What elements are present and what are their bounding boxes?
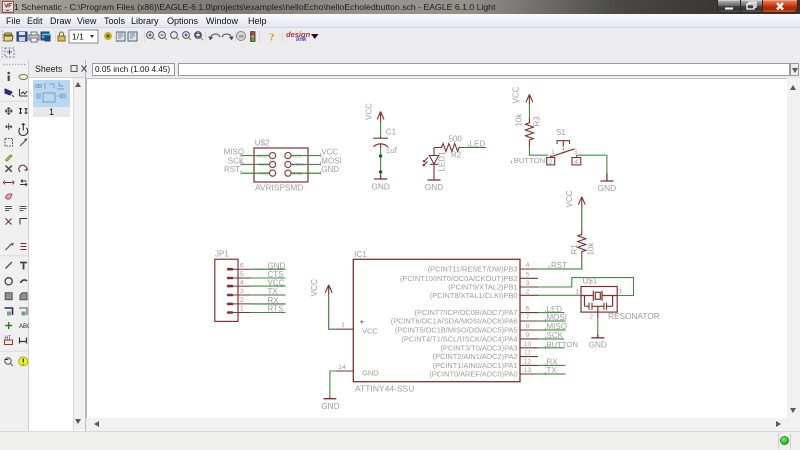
svg-text:MISO: MISO (547, 322, 567, 331)
svg-text:2: 2 (590, 314, 594, 321)
svg-text:TX: TX (547, 366, 558, 375)
wire net GND from JP1 pin 6 (251, 268, 285, 270)
wire net TX from IC1 PA0 (538, 373, 566, 375)
svg-text:SCK: SCK (547, 331, 564, 340)
switch S1 (547, 141, 581, 165)
wire net RST left of U$2 (241, 172, 270, 174)
resonator U$1 (581, 287, 617, 313)
wire net MOSI right of U$2 (291, 163, 320, 165)
svg-text:R1: R1 (570, 244, 579, 255)
wire net TX from JP1 pin 3 (251, 294, 285, 296)
svg-text:GND: GND (292, 171, 303, 177)
svg-text:(PCINT6/OC1A/SDA/MOSI/ADC6)PA6: (PCINT6/OC1A/SDA/MOSI/ADC6)PA6 (391, 317, 518, 326)
svg-text:4: 4 (574, 159, 578, 166)
svg-text:C1: C1 (386, 128, 397, 137)
resistor R1 (578, 230, 586, 259)
svg-text:RTS: RTS (268, 305, 284, 314)
svg-text:VCC: VCC (362, 327, 378, 336)
lock (58, 36, 65, 41)
add (flower) (104, 32, 112, 40)
connector JP1 (215, 259, 238, 321)
wire net LED from R2 (464, 147, 487, 149)
svg-text:(PCINT3/T0/ADC3)PA3: (PCINT3/T0/ADC3)PA3 (440, 343, 517, 352)
svg-text:GND: GND (425, 182, 443, 192)
svg-text:(PCINT11/RESET/DW)PB3: (PCINT11/RESET/DW)PB3 (428, 265, 518, 274)
wire switch to GND (576, 155, 607, 172)
wire net GND right of U$2 (291, 172, 320, 174)
supply symbol VCC above R3 (526, 94, 533, 105)
svg-text:2: 2 (240, 297, 244, 304)
svg-text:U$2: U$2 (255, 138, 270, 147)
ic IC1 ATTINY44-SSU (353, 259, 520, 381)
svg-text:GND: GND (589, 340, 607, 350)
svg-text:GND: GND (598, 183, 616, 193)
svg-text:SCK: SCK (259, 162, 270, 168)
svg-text:12: 12 (524, 358, 532, 365)
svg-text:7: 7 (526, 314, 530, 321)
svg-text:GND: GND (268, 261, 286, 270)
wire net LED from IC1 PA7 (538, 312, 565, 314)
svg-text:10k: 10k (515, 113, 524, 127)
ground symbol below resonator (591, 334, 604, 338)
resistor R2 (434, 144, 464, 152)
script icons (116, 32, 137, 41)
svg-text:10: 10 (524, 341, 532, 348)
wire net CTS from JP1 pin 5 (251, 277, 285, 279)
svg-text:LED: LED (470, 140, 486, 149)
wire net from IC1 PB0 to resonator pin1 (538, 294, 581, 296)
wire IC1 pin 14 to GND (330, 371, 336, 397)
JP1 pin stubs (233, 269, 251, 312)
wire VCC to R3 (528, 105, 530, 118)
svg-text:GND: GND (371, 182, 389, 192)
IC1 pin numbers right (524, 262, 532, 374)
svg-text:BUTTON: BUTTON (514, 156, 545, 165)
svg-text:JP1: JP1 (215, 250, 229, 259)
wire net SCK left of U$2 (241, 163, 270, 165)
ground symbol below C1 (374, 175, 387, 179)
svg-text:9: 9 (526, 332, 530, 339)
wire net MOSI from IC1 PA6 (538, 320, 566, 322)
svg-text:4: 4 (526, 262, 530, 269)
wire VCC to IC1 pin 1 (329, 295, 336, 329)
print (29, 35, 39, 40)
capacitor C1 (373, 137, 388, 148)
supply symbol VCC above C1 (377, 112, 384, 123)
svg-text:MISO: MISO (257, 153, 270, 159)
connector U$2 AVRISPSMD (254, 148, 308, 182)
svg-text:5: 5 (526, 271, 530, 278)
svg-text:1: 1 (575, 289, 579, 296)
wire C1 to GND (380, 148, 382, 176)
zoom icons x5 (147, 32, 203, 40)
svg-text:ATTINY44-SSU: ATTINY44-SSU (355, 384, 414, 394)
svg-text:R3: R3 (533, 116, 542, 127)
svg-text:GND: GND (321, 401, 339, 411)
wire net BUTTON from IC1 PA3 (538, 347, 565, 349)
IC1 right pin stubs (520, 269, 538, 374)
svg-text:MOSI: MOSI (321, 156, 341, 165)
wire net RTS from JP1 pin 1 (251, 312, 285, 314)
svg-text:GND: GND (362, 369, 379, 378)
junction (379, 170, 382, 173)
svg-text:RST: RST (551, 261, 567, 270)
svg-text:AVRISPSMD: AVRISPSMD (255, 182, 303, 192)
ground symbol below IC1 (323, 397, 336, 399)
svg-text:+: + (360, 318, 365, 327)
wire net RX from JP1 pin 2 (251, 303, 285, 305)
svg-text:(PCINT10/INT0/OC0A/CKOUT)PB2: (PCINT10/INT0/OC0A/CKOUT)PB2 (400, 274, 517, 283)
svg-text:VCC: VCC (321, 148, 338, 157)
wire resonator pin2 to GND (597, 312, 599, 318)
svg-text:3: 3 (526, 280, 530, 287)
ground symbol below LED1 (428, 179, 441, 181)
export (41, 32, 49, 40)
svg-text:6: 6 (240, 262, 244, 269)
wire net VCC from JP1 pin 4 (251, 285, 285, 287)
U$2 pin labels inside (257, 153, 304, 177)
svg-text:VCC: VCC (309, 279, 319, 297)
svg-text:RESONATOR: RESONATOR (608, 311, 660, 321)
wire net SCK from IC1 PA4 (538, 338, 564, 340)
svg-text:VCC: VCC (268, 278, 285, 287)
svg-text:4: 4 (240, 279, 244, 286)
svg-text:MOSI: MOSI (292, 162, 304, 168)
save (17, 32, 27, 41)
resistor R3 (525, 118, 533, 148)
supply symbol VCC left of IC1 (325, 285, 332, 296)
wire VCC to R1 (581, 207, 583, 229)
svg-text:R2: R2 (451, 151, 462, 160)
svg-text:6: 6 (526, 306, 530, 313)
svg-text:1: 1 (240, 306, 244, 313)
JP1 pin numbers (240, 262, 244, 312)
svg-text:13: 13 (524, 367, 532, 374)
svg-text:2: 2 (549, 159, 553, 166)
svg-text:IC1: IC1 (354, 249, 367, 259)
undo redo (208, 34, 233, 40)
svg-text:10k: 10k (587, 242, 596, 256)
svg-text:BUTTON: BUTTON (547, 340, 578, 349)
svg-text:VCC: VCC (365, 103, 374, 120)
svg-text:VCC: VCC (292, 153, 303, 159)
traffic light (250, 31, 256, 42)
wire R3 to switch (529, 148, 548, 156)
svg-text:1: 1 (341, 322, 345, 329)
IC1 left pin stubs (336, 329, 354, 371)
svg-text:VCC: VCC (512, 86, 521, 103)
svg-text:3: 3 (618, 289, 622, 296)
svg-text:TX: TX (268, 287, 279, 296)
svg-text:MOSI: MOSI (547, 313, 567, 322)
svg-text:(PCINT5/OC1B/MISO/DO/ADC5)PA5: (PCINT5/OC1B/MISO/DO/ADC5)PA5 (395, 326, 518, 335)
junction (379, 154, 382, 157)
svg-text:LED1: LED1 (438, 151, 447, 172)
wire net MISO left of U$2 (241, 155, 270, 157)
wire net MISO from IC1 PA5 (538, 329, 566, 331)
svg-text:500: 500 (449, 135, 463, 144)
svg-text:GND: GND (321, 165, 339, 174)
wire VCC to C1 (380, 122, 382, 137)
svg-text:1uf: 1uf (386, 146, 398, 155)
svg-text:RST: RST (259, 171, 269, 177)
stop (237, 32, 246, 41)
JP1 pin pads (227, 268, 234, 314)
svg-text:RST: RST (224, 165, 240, 174)
svg-text:11: 11 (524, 350, 531, 357)
svg-text:8: 8 (526, 323, 530, 330)
wire net VCC right of U$2 (291, 155, 320, 157)
wire net RESONATOR pin3 from IC1 PB1 (538, 278, 634, 296)
IC1 pin names (391, 265, 518, 379)
svg-text:2: 2 (526, 288, 530, 295)
svg-text:14: 14 (338, 364, 346, 371)
svg-text:S1: S1 (556, 128, 566, 137)
wire net RX from IC1 PA1 (538, 364, 566, 366)
svg-text:(PCINT8/XTAL1/CLKI)PB0: (PCINT8/XTAL1/CLKI)PB0 (430, 291, 518, 300)
svg-text:(PCINT0/AREF/ADC0)PA0: (PCINT0/AREF/ADC0)PA0 (429, 370, 517, 379)
svg-text:VCC: VCC (565, 190, 574, 207)
svg-text:(PCINT4/T1/SCL/USCK/ADC4)PA4: (PCINT4/T1/SCL/USCK/ADC4)PA4 (401, 334, 517, 343)
ground symbol right of S1 (600, 173, 613, 181)
led LED1 (423, 148, 439, 180)
svg-text:1: 1 (551, 149, 555, 156)
wire net RST from R1 to IC1 pin 4 (538, 259, 582, 269)
svg-text:U$1: U$1 (583, 277, 598, 286)
supply symbol VCC above R1 (578, 197, 585, 208)
svg-text:3: 3 (240, 288, 244, 295)
svg-text:(PCINT2/AIN1/ADC2)PA2: (PCINT2/AIN1/ADC2)PA2 (433, 352, 518, 361)
open (4, 33, 13, 41)
svg-text:SCK: SCK (228, 156, 245, 165)
combo 1/1 (69, 30, 98, 43)
svg-text:5: 5 (240, 271, 244, 278)
